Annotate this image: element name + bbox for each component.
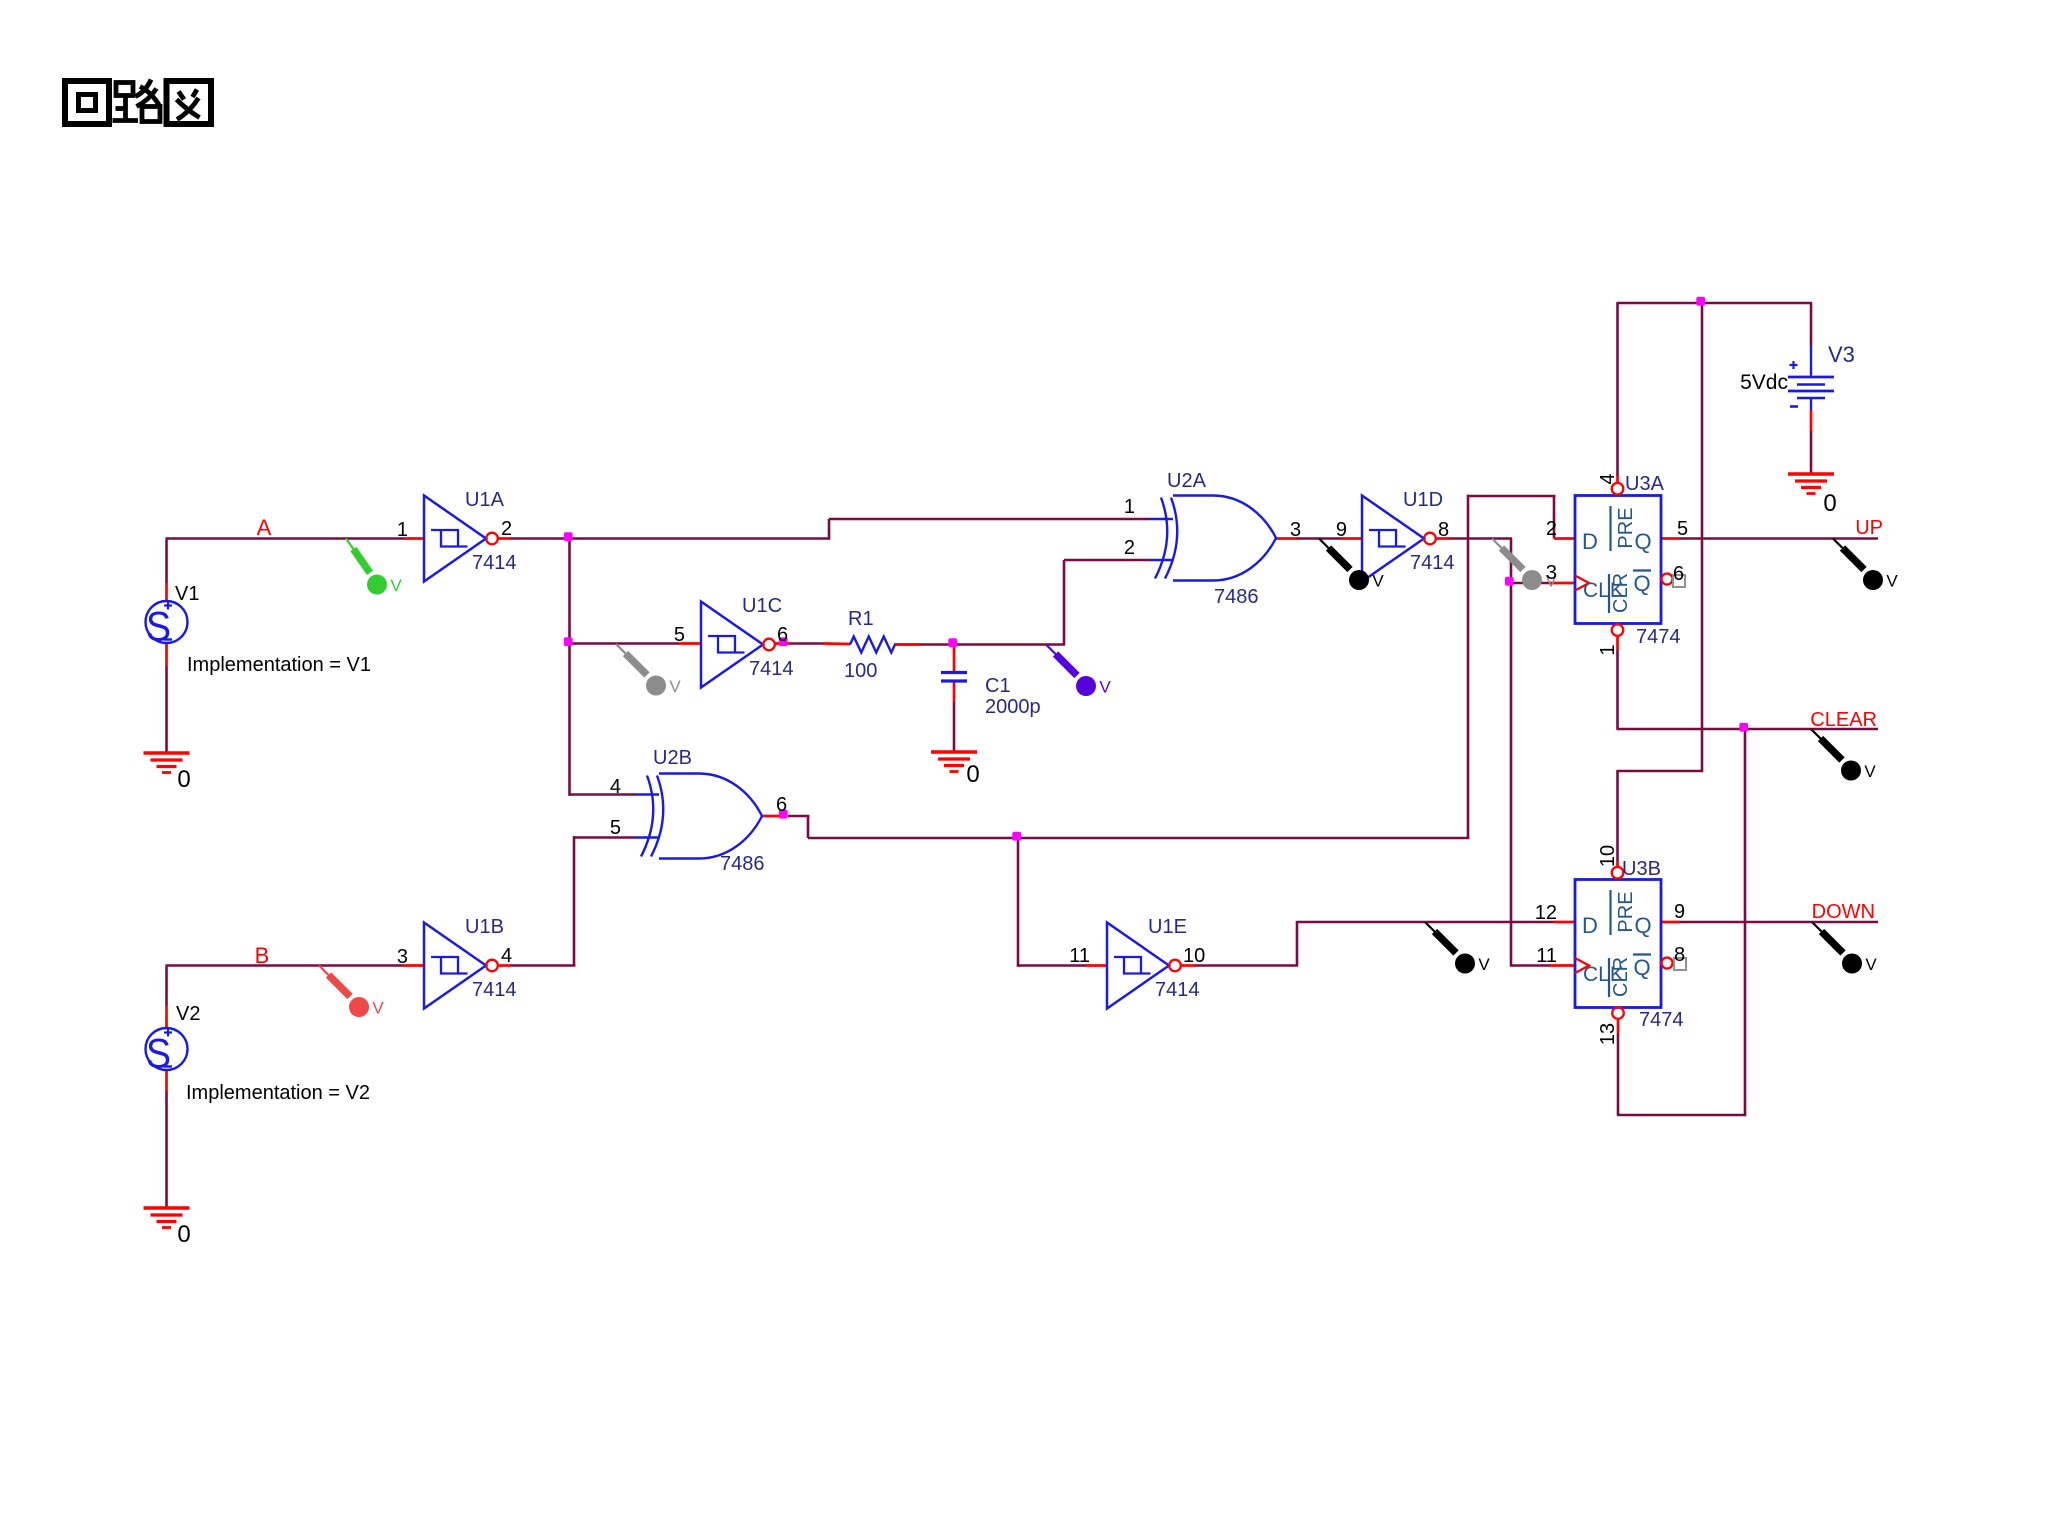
svg-text:U1C: U1C bbox=[742, 595, 782, 617]
svg-text:Q: Q bbox=[1633, 571, 1650, 596]
pin number 3 U2A bbox=[1290, 519, 1301, 541]
pin number 2 U3A bbox=[1546, 518, 1557, 540]
inverter U1B 7414 bbox=[424, 923, 498, 1009]
svg-text:10: 10 bbox=[1597, 845, 1619, 867]
wire U3A pin5 Q to UP bbox=[1680, 537, 1878, 540]
svg-text:2: 2 bbox=[1124, 537, 1135, 559]
title 回路図 bbox=[65, 80, 211, 125]
label U3A bbox=[1625, 473, 1681, 648]
wire CLK net down to U3B pin11 bbox=[1511, 583, 1549, 967]
pin number 3 U1B bbox=[397, 946, 408, 968]
label V1 bbox=[175, 583, 199, 605]
svg-text:UP: UP bbox=[1855, 517, 1883, 539]
svg-text:PRE: PRE bbox=[1615, 507, 1637, 548]
wire junction down to U2B pin4 bbox=[570, 644, 636, 796]
wire node to U2A pin2 bbox=[954, 560, 1149, 645]
pin number 4 U2B bbox=[610, 776, 621, 798]
pin stub R1 left bbox=[824, 642, 850, 645]
pin stub U3A pin3 CLK bbox=[1549, 582, 1575, 585]
ground 0 below C1 bbox=[931, 752, 977, 772]
svg-text:D: D bbox=[1582, 529, 1598, 554]
svg-text:5: 5 bbox=[674, 624, 685, 646]
pin number 5 U2B bbox=[610, 817, 621, 839]
pin stub C1 top bbox=[953, 645, 956, 672]
svg-text:U3A: U3A bbox=[1625, 473, 1665, 495]
wire net A from V1 to U1A pin1 bbox=[165, 539, 404, 584]
label U1A bbox=[465, 489, 517, 574]
svg-text:9: 9 bbox=[1674, 901, 1685, 923]
svg-text:7486: 7486 bbox=[1214, 586, 1259, 608]
inverter U1A 7414 bbox=[424, 496, 498, 582]
svg-text:8: 8 bbox=[1438, 519, 1449, 541]
inverter U1C 7414 bbox=[701, 602, 775, 688]
label U2B bbox=[653, 747, 765, 875]
pin stub U3B pin9 Q bbox=[1661, 921, 1680, 924]
svg-text:8: 8 bbox=[1674, 944, 1685, 966]
net label B bbox=[255, 943, 270, 968]
pin number 11 U1E bbox=[1069, 945, 1090, 967]
voltage source V2 bbox=[146, 1028, 188, 1077]
junction node power rail bbox=[1696, 297, 1705, 306]
probe V marker gray U3A CLK bbox=[1492, 539, 1557, 591]
flip-flop U3B 7474 bbox=[1575, 867, 1686, 1019]
net label UP bbox=[1855, 517, 1883, 539]
pin number 2 U2A bbox=[1124, 537, 1135, 559]
svg-text:100: 100 bbox=[844, 660, 877, 682]
pin stub U1D output pin8 bbox=[1436, 537, 1450, 540]
wire U1C pin6 to R1 bbox=[789, 642, 824, 645]
svg-text:V: V bbox=[1886, 572, 1898, 591]
svg-text:1: 1 bbox=[397, 519, 408, 541]
pin stub U3B pin11 CLK bbox=[1549, 964, 1575, 967]
svg-text:5: 5 bbox=[1677, 518, 1688, 540]
svg-text:4: 4 bbox=[610, 776, 621, 798]
svg-text:0: 0 bbox=[1823, 490, 1836, 517]
wire power rail from V3 bbox=[1616, 303, 1812, 861]
label 0 ground V1 bbox=[177, 766, 190, 793]
probe V marker black U3B D bbox=[1425, 922, 1490, 974]
svg-text:V1: V1 bbox=[175, 583, 199, 605]
wire U2B pin6 to U3A pin2 D bbox=[788, 495, 1555, 838]
pin number 9 U3B bbox=[1674, 901, 1685, 923]
svg-text:7414: 7414 bbox=[749, 658, 794, 680]
svg-text:4: 4 bbox=[501, 945, 512, 967]
pin number 2 U1A bbox=[501, 518, 512, 540]
svg-text:V2: V2 bbox=[176, 1003, 200, 1025]
label U1C bbox=[742, 595, 794, 680]
pin stub U1A input pin1 bbox=[404, 537, 424, 540]
junction node CLEAR net bbox=[1739, 723, 1748, 732]
svg-text:9: 9 bbox=[1336, 519, 1347, 541]
svg-text:V: V bbox=[1099, 678, 1111, 697]
pin number 4 U3A bbox=[1597, 473, 1619, 484]
inverter U1D 7414 bbox=[1362, 496, 1436, 582]
label R1 bbox=[844, 608, 877, 682]
junction node U2B output bbox=[779, 810, 788, 819]
svg-text:10: 10 bbox=[1183, 945, 1205, 967]
label U1D bbox=[1403, 489, 1455, 574]
svg-text:U1E: U1E bbox=[1148, 916, 1187, 938]
svg-text:3: 3 bbox=[397, 946, 408, 968]
label V2 bbox=[176, 1003, 200, 1025]
svg-text:V: V bbox=[1372, 572, 1384, 591]
resistor R1 100 bbox=[850, 637, 895, 653]
net label A bbox=[257, 515, 272, 540]
junction node CLK net bbox=[1505, 577, 1514, 586]
svg-text:U1D: U1D bbox=[1403, 489, 1443, 511]
label U3B bbox=[1622, 858, 1684, 1031]
svg-text:A: A bbox=[257, 515, 272, 540]
wire V2 minus to ground bbox=[165, 1091, 168, 1208]
svg-text:11: 11 bbox=[1536, 945, 1557, 967]
svg-text:7474: 7474 bbox=[1639, 1009, 1684, 1031]
svg-text:CLR: CLR bbox=[1610, 573, 1632, 613]
probe V marker black CLEAR bbox=[1811, 729, 1876, 781]
svg-text:V: V bbox=[390, 576, 402, 595]
svg-text:DOWN: DOWN bbox=[1812, 901, 1875, 923]
pin number 10 U3B bbox=[1597, 845, 1619, 867]
label U1E bbox=[1148, 916, 1200, 1001]
pin number 11 U3B bbox=[1536, 945, 1557, 967]
svg-text:V: V bbox=[1478, 955, 1490, 974]
svg-text:U2B: U2B bbox=[653, 747, 692, 769]
wire U1E pin10 to U3B pin12 D bbox=[1194, 921, 1554, 966]
label 0 ground V3 bbox=[1823, 490, 1836, 517]
pin stub R1 right bbox=[895, 643, 921, 646]
pin stub U1B output pin4 bbox=[498, 964, 511, 967]
pin number 6 U3A bbox=[1673, 563, 1684, 585]
svg-text:S: S bbox=[146, 1030, 171, 1077]
svg-text:S: S bbox=[146, 603, 171, 650]
ground 0 below V3 bbox=[1788, 474, 1834, 494]
wire junction A2 down to U1C pin5 bbox=[570, 537, 680, 644]
net label DOWN bbox=[1812, 901, 1875, 923]
pin number 9 U1D bbox=[1336, 519, 1347, 541]
svg-text:U2A: U2A bbox=[1167, 470, 1207, 492]
pin stub V2 plus bbox=[165, 1006, 168, 1028]
pin number 5 U1C bbox=[674, 624, 685, 646]
pin number 6 U2B bbox=[776, 794, 787, 816]
wire U3B pin9 Q to DOWN bbox=[1680, 921, 1878, 924]
pin stub U1C output pin6 bbox=[775, 642, 790, 645]
svg-text:V3: V3 bbox=[1828, 342, 1855, 367]
pin stub U3A pin4 PRE bbox=[1616, 476, 1619, 483]
svg-text:3: 3 bbox=[1290, 519, 1301, 541]
svg-text:3: 3 bbox=[1546, 562, 1557, 584]
net label CLEAR bbox=[1810, 709, 1877, 731]
probe V marker blue C1 node bbox=[1046, 645, 1111, 697]
wire C1 to ground bbox=[953, 702, 956, 752]
svg-text:1: 1 bbox=[1124, 496, 1135, 518]
pin stub U3A pin1 CLR bbox=[1616, 636, 1619, 650]
svg-text:6: 6 bbox=[776, 794, 787, 816]
pin stub V1 minus bbox=[165, 643, 168, 666]
wire U1A pin2 to U2A pin1 bbox=[510, 519, 1149, 540]
junction node R1-C1 bbox=[948, 638, 957, 647]
svg-text:12: 12 bbox=[1535, 902, 1557, 924]
pin number 12 U3B bbox=[1535, 902, 1557, 924]
svg-text:7414: 7414 bbox=[1155, 979, 1200, 1001]
pin number 3 U3A bbox=[1546, 562, 1557, 584]
pin stub U3B pin12 D bbox=[1554, 921, 1575, 924]
svg-text:Implementation = V2: Implementation = V2 bbox=[186, 1082, 370, 1104]
svg-text:0: 0 bbox=[177, 766, 190, 793]
pin stub U3B pin10 PRE bbox=[1616, 861, 1619, 868]
pin number 1 U1A bbox=[397, 519, 408, 541]
pin number 8 U3B bbox=[1674, 944, 1685, 966]
pin stub V3 minus bbox=[1810, 410, 1813, 431]
svg-text:Q: Q bbox=[1633, 955, 1650, 980]
pin stub U1D input pin9 bbox=[1341, 537, 1362, 540]
svg-text:U1B: U1B bbox=[465, 916, 504, 938]
pin number 5 U3A bbox=[1677, 518, 1688, 540]
junction node U2B net to U1E bbox=[1012, 832, 1021, 841]
ground 0 below V1 bbox=[144, 753, 190, 773]
svg-text:V: V bbox=[669, 677, 681, 696]
pin stub U1A output pin2 bbox=[498, 537, 511, 540]
capacitor C1 2000p bbox=[941, 673, 967, 682]
svg-text:CLEAR: CLEAR bbox=[1810, 709, 1877, 731]
probe V marker black DOWN bbox=[1812, 922, 1877, 974]
svg-text:7414: 7414 bbox=[472, 552, 517, 574]
junction node U1A output bbox=[564, 532, 573, 541]
ground 0 below V2 bbox=[144, 1208, 190, 1228]
label 0 ground C1 bbox=[966, 761, 979, 788]
pin stub U1B input pin3 bbox=[404, 964, 424, 967]
pin stub U1E output pin10 bbox=[1181, 964, 1195, 967]
voltage source V1 bbox=[146, 601, 188, 650]
pin number 10 U1E bbox=[1183, 945, 1205, 967]
svg-text:Q: Q bbox=[1634, 913, 1651, 938]
wire U1D pin8 to U3A pin3 CLK bbox=[1449, 539, 1549, 584]
wire net B from V2 to U1B pin3 bbox=[165, 966, 404, 1007]
svg-text:5: 5 bbox=[610, 817, 621, 839]
probe V marker black U1D output bbox=[1319, 539, 1384, 591]
junction node after U1C output bbox=[779, 637, 788, 646]
svg-text:7414: 7414 bbox=[1410, 552, 1455, 574]
wire U2A pin3 to U1D pin9 bbox=[1296, 537, 1341, 540]
wire U1B pin4 to U2B pin5 bbox=[510, 836, 635, 965]
pin stub V2 minus bbox=[165, 1070, 168, 1091]
wire junction to U1E pin11 bbox=[1018, 838, 1086, 967]
svg-text:7474: 7474 bbox=[1636, 626, 1681, 648]
label U2A bbox=[1167, 470, 1259, 608]
wire V3 minus to ground bbox=[1810, 431, 1813, 474]
svg-text:6: 6 bbox=[1673, 563, 1684, 585]
junction node U1C input branch bbox=[564, 637, 573, 646]
svg-text:11: 11 bbox=[1069, 945, 1090, 967]
wire R1 to node C1 bbox=[894, 643, 955, 646]
battery V3 5Vdc bbox=[1788, 346, 1834, 410]
svg-text:4: 4 bbox=[1597, 473, 1619, 484]
probe V marker gray U1C input bbox=[616, 644, 681, 696]
pin stub V1 plus bbox=[165, 583, 168, 601]
svg-text:C1: C1 bbox=[985, 675, 1011, 697]
xor gate U2A 7486 bbox=[1149, 496, 1276, 581]
svg-text:6: 6 bbox=[777, 624, 788, 646]
svg-text:B: B bbox=[255, 943, 270, 968]
flip-flop U3A 7474 bbox=[1575, 483, 1685, 636]
svg-text:2: 2 bbox=[501, 518, 512, 540]
pin number 4 U1B bbox=[501, 945, 512, 967]
svg-text:7414: 7414 bbox=[472, 979, 517, 1001]
probe V marker red net B bbox=[319, 966, 384, 1018]
label 0 ground V2 bbox=[177, 1221, 190, 1248]
svg-text:2: 2 bbox=[1546, 518, 1557, 540]
wire CLEAR branch to U3B pin13 CLR bbox=[1617, 729, 1746, 1116]
pin number 6 U1C bbox=[777, 624, 788, 646]
svg-text:PRE: PRE bbox=[1615, 891, 1637, 932]
inverter U1E 7414 bbox=[1107, 923, 1181, 1009]
svg-text:U3B: U3B bbox=[1622, 858, 1661, 880]
svg-text:0: 0 bbox=[177, 1221, 190, 1248]
svg-text:D: D bbox=[1582, 913, 1598, 938]
wire V1 minus to ground bbox=[165, 666, 168, 753]
svg-text:7486: 7486 bbox=[720, 853, 765, 875]
pin number 1 U3A bbox=[1597, 644, 1619, 655]
pin stub U1C input pin5 bbox=[679, 642, 701, 645]
label Implementation V1 bbox=[187, 654, 371, 676]
label C1 bbox=[985, 675, 1041, 718]
pin stub U1E input pin11 bbox=[1086, 964, 1107, 967]
svg-text:U1A: U1A bbox=[465, 489, 505, 511]
svg-text:Q: Q bbox=[1634, 529, 1651, 554]
probe V marker green net A bbox=[346, 539, 402, 596]
svg-text:2000p: 2000p bbox=[985, 696, 1041, 718]
svg-text:CLR: CLR bbox=[1610, 957, 1632, 997]
svg-text:R1: R1 bbox=[848, 608, 874, 630]
pin stub U3A pin2 D bbox=[1554, 537, 1575, 540]
pin number 8 U1D bbox=[1438, 519, 1449, 541]
svg-text:V: V bbox=[1864, 762, 1876, 781]
pin stub U3B pin13 CLR bbox=[1617, 1019, 1620, 1033]
probe V marker black UP bbox=[1833, 539, 1898, 591]
label V3 bbox=[1740, 342, 1855, 394]
svg-text:13: 13 bbox=[1597, 1023, 1619, 1045]
svg-text:Implementation = V1: Implementation = V1 bbox=[187, 654, 371, 676]
wire U3A pin1 CLR to CLEAR net bbox=[1616, 650, 1878, 729]
pin number 1 U2A bbox=[1124, 496, 1135, 518]
svg-text:0: 0 bbox=[966, 761, 979, 788]
pin stub U3A pin5 Q bbox=[1661, 537, 1680, 540]
xor gate U2B 7486 bbox=[635, 774, 762, 859]
svg-text:V: V bbox=[372, 999, 384, 1018]
pin stub C1 bottom bbox=[953, 683, 956, 703]
svg-text:5Vdc: 5Vdc bbox=[1740, 371, 1788, 394]
pin stub U2B output pin6 bbox=[762, 815, 780, 818]
pin stub U2A output pin3 bbox=[1276, 537, 1297, 540]
label U1B bbox=[465, 916, 517, 1001]
svg-text:V: V bbox=[1865, 955, 1877, 974]
svg-text:1: 1 bbox=[1597, 644, 1619, 655]
label Implementation V2 bbox=[186, 1082, 370, 1104]
pin number 13 U3B bbox=[1597, 1023, 1619, 1045]
